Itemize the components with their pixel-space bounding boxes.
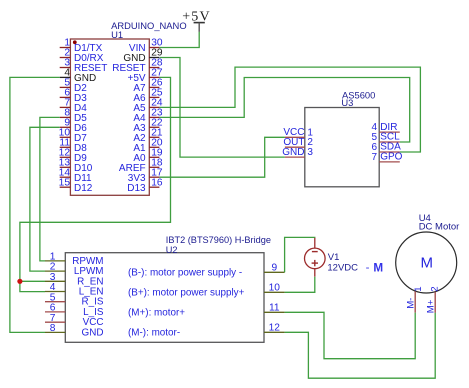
U1 pin 18 (AREF) bbox=[119, 158, 163, 174]
svg-text:10: 10 bbox=[269, 283, 281, 294]
svg-text:16: 16 bbox=[151, 177, 163, 188]
U3 pin 2 (OUT) bbox=[283, 137, 313, 148]
svg-text:15: 15 bbox=[59, 177, 71, 188]
U2 pin 3 (R_EN) bbox=[45, 272, 104, 287]
svg-text:M: M bbox=[421, 255, 434, 272]
wire V1 plus to U2 pin10 bbox=[285, 277, 315, 293]
U1 pin 19 (A0) bbox=[133, 148, 163, 164]
U2 pin 12 (M-): motor- bbox=[128, 323, 285, 339]
svg-text:3: 3 bbox=[307, 147, 313, 158]
U1 pin 5 (D2) bbox=[60, 78, 88, 94]
U1 pin 12 (D9) bbox=[59, 148, 88, 164]
IC U3 AS5600 body bbox=[305, 108, 379, 187]
U1 pin 28 (RESET) bbox=[112, 58, 163, 74]
svg-text:-: - bbox=[366, 262, 370, 274]
svg-text:U3: U3 bbox=[341, 97, 353, 108]
svg-text:M+: M+ bbox=[425, 299, 436, 313]
wire branch to R_EN bbox=[20, 280, 45, 282]
U1 pin 11 (D8) bbox=[59, 138, 87, 154]
U1 pin 20 (A1) bbox=[133, 138, 163, 154]
svg-text:V1: V1 bbox=[328, 252, 340, 263]
svg-text:U2: U2 bbox=[166, 245, 178, 255]
U2 pin 6 (L_IS) bbox=[45, 303, 104, 318]
svg-text:D12: D12 bbox=[74, 183, 93, 194]
IC U1 ARDUINO_NANO body bbox=[70, 39, 149, 195]
U1 pin 29 (GND) bbox=[123, 48, 163, 64]
svg-text:(M-): motor-: (M-): motor- bbox=[128, 328, 180, 339]
svg-text:IBT2 (BTS7960) H-Bridge: IBT2 (BTS7960) H-Bridge bbox=[166, 235, 271, 245]
svg-text:DC Motor: DC Motor bbox=[419, 222, 460, 233]
U2 pin 2 (LPWM) bbox=[45, 262, 104, 277]
wire GND pin29 to U3 GND pin3 bbox=[160, 58, 285, 158]
junction dot R_EN/L_EN net bbox=[17, 279, 22, 284]
U1 pin 7 (D4) bbox=[60, 98, 88, 114]
U1 pin 9 (D6) bbox=[60, 118, 88, 134]
U2 pin 5 (R_IS) bbox=[45, 292, 104, 307]
U4 pin 2 (M+) bbox=[425, 286, 440, 313]
svg-text:2: 2 bbox=[429, 286, 440, 291]
wire U2 pin11 to motor M- bbox=[285, 312, 416, 358]
U1 pin 10 (D7) bbox=[59, 128, 88, 144]
svg-text:(B+): motor power supply+: (B+): motor power supply+ bbox=[128, 288, 245, 299]
U1 pin 25 (A6) bbox=[133, 88, 163, 104]
wire V1 minus to U2 pin9 bbox=[285, 237, 315, 272]
U1 pin 30 (VIN) bbox=[129, 38, 163, 54]
U1 pin 21 (A2) bbox=[133, 128, 163, 144]
wire GND pin4 to U2 GND pin8 bbox=[10, 77, 60, 332]
svg-text:GND: GND bbox=[282, 147, 304, 158]
U1 pin 16 (D13) bbox=[127, 177, 163, 193]
U1 pin 2 (D0/RX) bbox=[60, 48, 104, 64]
svg-text:8: 8 bbox=[50, 323, 56, 334]
U3 pin 5 (SCL) bbox=[371, 132, 400, 143]
U1 pin 22 (A3) bbox=[133, 118, 163, 134]
svg-text:11: 11 bbox=[269, 303, 280, 314]
U1 pin 24 (A5) bbox=[133, 98, 163, 114]
svg-text:9: 9 bbox=[271, 263, 277, 274]
IC U2 IBT2 (BTS7960) H-Bridge body bbox=[65, 253, 264, 343]
U1 pin 27 (+5V) bbox=[128, 68, 163, 84]
power +5V flag bbox=[182, 9, 211, 32]
U1 pin 13 (D10) bbox=[59, 158, 93, 174]
U4 pin 1 (M-) bbox=[406, 286, 424, 312]
svg-text:M: M bbox=[373, 262, 383, 275]
U3 pin 6 (SDA) bbox=[371, 142, 401, 153]
svg-text:12: 12 bbox=[269, 323, 281, 334]
U2 pin 11 (M+): motor+ bbox=[128, 303, 285, 319]
voltage source V1 12VDC bbox=[305, 238, 326, 277]
wire U2 pin12 to motor M+ bbox=[285, 313, 436, 378]
U2 pin 9 (B-): motor power supply - bbox=[128, 263, 285, 279]
svg-text:M-: M- bbox=[406, 298, 417, 309]
U3 pin 7 (GPO) bbox=[371, 152, 402, 163]
svg-text:GND: GND bbox=[82, 327, 104, 338]
U1 pin 4 (GND) bbox=[60, 68, 97, 84]
U1 pin 15 (D12) bbox=[59, 177, 93, 193]
U2 pin 1 (RPWM) bbox=[45, 252, 104, 267]
svg-text:(B-): motor power supply -: (B-): motor power supply - bbox=[128, 268, 242, 279]
U3 pin 4 (DIR) bbox=[371, 122, 399, 133]
label - M bbox=[366, 262, 384, 275]
U1 pin 1 (D1/TX) bbox=[60, 38, 103, 54]
U1 pin 26 (A7) bbox=[133, 78, 163, 94]
motor U4 DC Motor body bbox=[396, 232, 457, 293]
U1 pin 8 (D5) bbox=[60, 108, 88, 124]
wire D6 pin9 to LPWM bbox=[30, 127, 60, 271]
svg-text:U1: U1 bbox=[111, 29, 123, 40]
U2 pin 4 (L_EN) bbox=[45, 282, 104, 297]
U1 pin 17 (3V3) bbox=[128, 167, 163, 183]
U1 pin 14 (D11) bbox=[59, 167, 92, 183]
wire D5 pin8 to RPWM bbox=[40, 117, 60, 261]
wire VIN pin30 to +5V bbox=[159, 32, 199, 48]
U1 pin 3 (RESET) bbox=[60, 58, 108, 74]
wire 3V3 pin17 to U3 VCC pin1 bbox=[159, 137, 285, 177]
svg-text:7: 7 bbox=[371, 152, 377, 163]
svg-text:(M+): motor+: (M+): motor+ bbox=[128, 308, 185, 319]
wire A4 pin23 to SCL bbox=[159, 78, 409, 143]
U2 pin 8 (GND) bbox=[45, 323, 104, 338]
svg-text:12VDC: 12VDC bbox=[327, 263, 358, 274]
wire A5 pin24 to SDA bbox=[159, 67, 420, 152]
U3 pin 1 (VCC) bbox=[283, 127, 313, 138]
svg-text:1: 1 bbox=[413, 286, 424, 291]
U3 pin 3 (GND) bbox=[282, 147, 313, 158]
U1 pin 1 marker dot bbox=[73, 40, 77, 44]
U2 pin 7 (VCC) bbox=[45, 313, 104, 328]
U2 pin 10 (B+): motor power supply+ bbox=[128, 283, 285, 299]
wire +5V pin27 to EN bbox=[20, 77, 171, 291]
svg-text:GPO: GPO bbox=[380, 152, 402, 163]
U1 pin 6 (D3) bbox=[60, 88, 88, 104]
svg-text:D13: D13 bbox=[127, 183, 146, 194]
U1 pin 23 (A4) bbox=[133, 108, 163, 124]
